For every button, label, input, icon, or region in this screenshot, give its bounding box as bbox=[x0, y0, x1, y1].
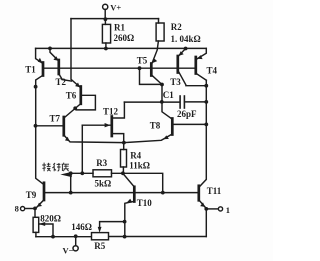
svg-text:260Ω: 260Ω bbox=[114, 33, 135, 43]
svg-text:V−: V− bbox=[63, 245, 74, 255]
svg-text:R2: R2 bbox=[171, 22, 182, 32]
svg-text:R1: R1 bbox=[114, 23, 125, 33]
svg-text:T6: T6 bbox=[66, 91, 77, 101]
svg-text:V+: V+ bbox=[110, 3, 121, 13]
svg-text:1: 1 bbox=[226, 205, 230, 215]
svg-text:T11: T11 bbox=[207, 186, 222, 196]
svg-text:8: 8 bbox=[15, 204, 19, 214]
svg-text:5kΩ: 5kΩ bbox=[95, 178, 112, 188]
svg-text:T10: T10 bbox=[137, 198, 153, 208]
svg-text:R3: R3 bbox=[96, 158, 107, 168]
svg-text:146Ω: 146Ω bbox=[71, 222, 92, 232]
svg-text:R4: R4 bbox=[130, 150, 141, 160]
svg-text:T2: T2 bbox=[56, 77, 67, 87]
svg-text:11kΩ: 11kΩ bbox=[129, 160, 150, 170]
svg-text:T1: T1 bbox=[25, 64, 36, 74]
svg-text:R5: R5 bbox=[94, 241, 105, 251]
svg-text:26pF: 26pF bbox=[177, 109, 197, 119]
svg-text:T7: T7 bbox=[50, 113, 61, 123]
svg-text:T5: T5 bbox=[137, 56, 148, 66]
svg-text:T3: T3 bbox=[170, 77, 181, 87]
svg-text:T9: T9 bbox=[26, 190, 37, 200]
svg-text:T4: T4 bbox=[207, 66, 218, 76]
svg-text:C1: C1 bbox=[163, 90, 174, 100]
svg-text:T8: T8 bbox=[150, 121, 161, 131]
svg-text:820Ω: 820Ω bbox=[40, 214, 61, 224]
svg-text:T12: T12 bbox=[103, 107, 119, 117]
svg-text:1. 04kΩ: 1. 04kΩ bbox=[171, 34, 201, 44]
